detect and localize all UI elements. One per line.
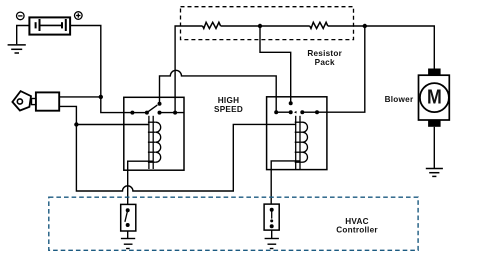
wire resistor R1 to node C bbox=[221, 25, 260, 27]
wire node C to resistor R2 bbox=[260, 25, 310, 27]
wire blower motor to ground bbox=[433, 127, 435, 168]
HVAC controller enclosure bbox=[49, 197, 418, 250]
ground (blower) bbox=[426, 169, 443, 177]
svg-text:Resistor: Resistor bbox=[307, 49, 342, 58]
wire relay K1 NO contact to relay K2 common (high speed line, hop over resistor wire) bbox=[160, 70, 277, 112]
wire relay K1 NC terminal to resistor R1 bbox=[175, 26, 203, 113]
battery negative terminal marker bbox=[17, 12, 25, 20]
relay K2 blade tip (closed position arrow) bbox=[294, 111, 297, 114]
relay K1 NO contact bbox=[158, 102, 162, 106]
wire node D to relay K2 row terminal bbox=[317, 26, 365, 112]
resistor R2 bbox=[310, 22, 328, 28]
ground (battery) bbox=[8, 45, 26, 53]
svg-text:HVAC: HVAC bbox=[345, 217, 369, 226]
wire ignition switch to node A bbox=[59, 96, 101, 98]
wire HVAC switch S2 to ground bbox=[127, 231, 129, 238]
HVAC switch S3 (closed) bbox=[264, 204, 279, 230]
blower motor M1 bbox=[419, 69, 450, 127]
wire battery positive to node A bbox=[70, 26, 101, 97]
wire relay K1 coil to HVAC switch S2 bbox=[128, 161, 154, 204]
relay K1 terminal row bbox=[132, 112, 184, 114]
relay K1 blade (open) bbox=[147, 105, 157, 113]
wire battery negative to ground bbox=[17, 26, 30, 45]
wire resistor R2 to node D bbox=[328, 25, 365, 27]
relay K2 coil L2 bbox=[295, 116, 308, 169]
ground (HVAC switch S2) bbox=[121, 239, 135, 249]
relay K2 NO contact bbox=[289, 101, 293, 105]
svg-text:Blower: Blower bbox=[385, 95, 414, 104]
wire node B to relay K2 coil (with hop over K1 coil wire) bbox=[76, 124, 295, 191]
wire relay K2 coil to HVAC switch S3 bbox=[271, 161, 300, 204]
node D junction bbox=[363, 24, 367, 28]
svg-text:HIGH: HIGH bbox=[218, 96, 239, 105]
svg-text:Pack: Pack bbox=[315, 58, 335, 67]
svg-text:Controller: Controller bbox=[336, 226, 378, 235]
resistor pack enclosure bbox=[181, 7, 354, 40]
wire node D to blower motor bbox=[365, 26, 435, 69]
svg-text:M: M bbox=[427, 86, 442, 108]
node A junction bbox=[99, 95, 103, 99]
relay K1 enclosure bbox=[124, 97, 184, 170]
wire node A to relay K1 common terminal bbox=[101, 97, 133, 113]
relay K2 terminal row bbox=[276, 111, 317, 113]
relay K2 enclosure bbox=[267, 97, 327, 170]
wire node B to relay K1 coil bbox=[76, 124, 148, 126]
node C junction bbox=[258, 24, 262, 28]
resistor R1 bbox=[203, 22, 221, 28]
wire node C to relay K2 NO contact bbox=[260, 26, 291, 103]
relay K1 coil L1 bbox=[148, 116, 161, 169]
HVAC switch S2 (open) bbox=[121, 204, 136, 231]
ignition switch S1 bbox=[12, 91, 59, 111]
svg-text:SPEED: SPEED bbox=[214, 105, 243, 114]
wire ignition switch to node B bbox=[59, 106, 76, 124]
battery positive terminal marker bbox=[75, 12, 83, 20]
ground (HVAC switch S3) bbox=[265, 239, 279, 249]
wire HVAC switch S3 to ground bbox=[271, 230, 273, 238]
battery B1 bbox=[29, 17, 70, 34]
node B junction bbox=[74, 122, 78, 126]
